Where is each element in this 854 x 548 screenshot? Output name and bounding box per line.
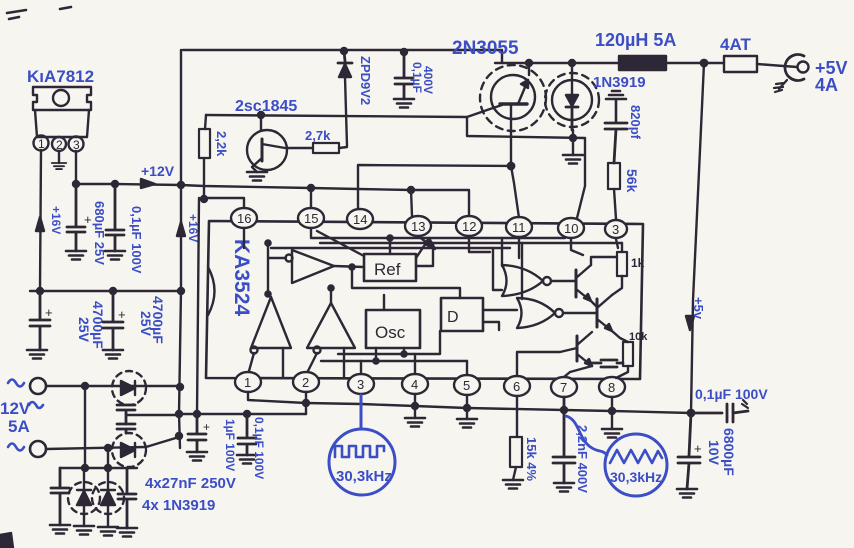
resistor 10k internal	[612, 331, 628, 342]
internal bus A	[311, 228, 565, 238]
ground under 15k	[503, 480, 523, 489]
ground under pin 4	[414, 394, 416, 418]
transistor Q1 internal	[575, 270, 578, 297]
svg-text:5A: 5A	[8, 417, 30, 436]
output jack	[785, 55, 804, 81]
ground under 680uF	[66, 251, 86, 260]
U1 pin 1	[34, 136, 49, 151]
svg-text:25V: 25V	[138, 311, 154, 337]
ground under 2,2nF	[554, 483, 574, 492]
svg-text:10: 10	[564, 221, 578, 236]
svg-text:6800µF: 6800µF	[721, 428, 737, 476]
svg-text:4: 4	[411, 377, 418, 392]
svg-text:1k: 1k	[631, 256, 645, 270]
ground under diode C	[74, 526, 94, 535]
svg-text:3: 3	[612, 222, 619, 237]
Ref block	[364, 254, 416, 281]
pin 3	[348, 374, 374, 394]
capacitor 27nF left	[51, 468, 69, 525]
wire Q1 emitter to Q2 collector	[591, 301, 597, 307]
ground under pin 8	[611, 397, 613, 429]
arrow down +5V	[686, 316, 694, 330]
svg-text:2,2k: 2,2k	[214, 131, 229, 157]
svg-text:1µF 100V: 1µF 100V	[223, 419, 237, 471]
svg-text:4x27nF 250V: 4x27nF 250V	[145, 475, 236, 492]
svg-text:+: +	[45, 305, 53, 320]
wire base drive to 2N3055 and pin10	[467, 117, 585, 218]
wire emitter to pin11	[511, 166, 519, 218]
svg-text:56k: 56k	[624, 169, 640, 193]
svg-text:2: 2	[56, 138, 63, 152]
svg-text:5: 5	[463, 378, 470, 393]
svg-text:KA3524: KA3524	[230, 239, 253, 316]
+12V rail wire	[76, 184, 469, 217]
wire pin10 stub into box	[571, 238, 583, 255]
input terminal T2	[30, 441, 46, 457]
resistor 2,2k	[204, 115, 206, 199]
pin 14	[347, 209, 373, 229]
resistor 15k at pin 6	[516, 396, 518, 437]
svg-text:3: 3	[73, 138, 80, 152]
wire left IC column	[197, 198, 199, 414]
base bias wire y115	[206, 115, 467, 117]
internal bus B	[320, 242, 622, 244]
svg-text:Osc: Osc	[375, 323, 406, 342]
wire diag pin15 to Ref	[317, 231, 364, 256]
ground under 4700uF first	[27, 350, 47, 359]
ground under pin 5	[466, 395, 468, 419]
ground under 1uF	[187, 452, 207, 461]
svg-text:14: 14	[353, 212, 367, 227]
svg-text:820pf: 820pf	[628, 105, 643, 140]
wire pin11 stub into box	[518, 237, 520, 258]
svg-text:4AT: 4AT	[720, 35, 751, 54]
svg-text:2: 2	[302, 375, 309, 390]
svg-text:11: 11	[512, 220, 526, 235]
pin 4	[402, 374, 428, 394]
ground stub under 1N3919	[572, 130, 574, 155]
svg-text:ZPD9V2: ZPD9V2	[358, 56, 373, 105]
pin 2	[293, 372, 319, 392]
capacitor 4700uF 25V (first)	[30, 291, 50, 350]
wire U1 pin3 down	[75, 151, 77, 184]
zener internal scribble	[592, 360, 623, 367]
svg-text:13: 13	[411, 219, 425, 234]
wire amp output to D	[352, 267, 460, 298]
wire Q3 emitter to pin7	[564, 366, 592, 377]
svg-text:400V: 400V	[421, 66, 435, 94]
capacitor 4700uF 25V (second)	[103, 291, 123, 350]
svg-text:2,7k: 2,7k	[305, 128, 331, 143]
diode 1N3919 flyback dashed circle	[545, 73, 599, 127]
capacitor 1uF 100V	[188, 414, 206, 452]
ground under 2SC1845 emitter	[247, 172, 267, 181]
transistor 2N3055	[491, 75, 535, 119]
NOR gate 1	[502, 265, 543, 296]
svg-text:6: 6	[513, 379, 520, 394]
pin 6	[504, 376, 530, 396]
pin 11	[506, 217, 532, 237]
pin 12	[456, 216, 482, 236]
wire terminal2	[46, 437, 179, 449]
svg-text:1: 1	[244, 375, 251, 390]
diode 1N3919 flyback	[552, 80, 592, 120]
diode C	[77, 491, 91, 505]
wire rail to pin15	[310, 188, 312, 208]
svg-text:25V: 25V	[76, 317, 92, 343]
wire rail to pin13	[411, 190, 412, 216]
svg-text:+16V: +16V	[49, 206, 63, 234]
svg-text:16: 16	[237, 211, 251, 226]
capacitor 680uF 25V	[67, 184, 85, 251]
capacitor 27nF right	[118, 468, 136, 528]
wire amp input column	[268, 243, 286, 297]
ground rail A below IC	[248, 392, 691, 413]
capacitor 6800uF 10V	[678, 413, 700, 489]
ground under U1 pin2	[52, 163, 66, 169]
top supply rail	[183, 50, 619, 63]
diode 1N3919 D dashed circle	[92, 482, 124, 514]
svg-text:0,1µF 100V: 0,1µF 100V	[129, 206, 144, 274]
arrow +16V on tall wire	[177, 222, 185, 236]
wire pin16 into box	[243, 228, 245, 248]
capacitor 0,1uF 400V top	[395, 52, 413, 99]
tall +16V vertical wire	[179, 50, 181, 448]
ground under 0,1uF bottom	[237, 455, 257, 464]
inductor 120uH 5A	[619, 56, 666, 70]
wire 2,2k node to pin16	[204, 198, 244, 208]
pin 7	[551, 377, 577, 397]
wire terminal1 to rail	[46, 385, 181, 387]
IC notch mark	[208, 267, 215, 315]
+5V sense vertical wire	[691, 63, 704, 413]
capacitor 0,1uF 100V bottom	[238, 414, 256, 455]
svg-text:30,3kHz: 30,3kHz	[610, 469, 662, 485]
ground under 6800uF	[677, 489, 697, 498]
svg-text:1N3919: 1N3919	[593, 74, 646, 91]
svg-text:+: +	[118, 307, 126, 322]
svg-text:4x 1N3919: 4x 1N3919	[142, 497, 215, 514]
pin 8	[599, 377, 625, 397]
wire terminal1 node down	[84, 386, 86, 468]
ac squiggle marks	[8, 380, 43, 451]
svg-text:3: 3	[357, 377, 364, 392]
svg-text:+: +	[203, 420, 210, 434]
wire pin3 pin4 pin5 stubs up	[361, 354, 467, 375]
IC U2 KA3524 box	[206, 221, 643, 379]
wire pin2 to ground	[58, 151, 60, 163]
diode 1N3919 C dashed circle	[68, 482, 100, 514]
svg-text:0,1µF 100V: 0,1µF 100V	[252, 417, 266, 479]
svg-text:10V: 10V	[706, 440, 722, 466]
wire pin 2 down	[305, 392, 307, 414]
capacitor 0,1uF 100V series right	[691, 404, 748, 422]
arrow +16V on pin1 wire	[36, 217, 44, 231]
capacitor 820pF with top ground	[606, 91, 626, 122]
capacitor 0,1uF 100V	[106, 184, 124, 251]
ground under left 27nF	[50, 525, 70, 534]
transistor Q-A dashed circle	[112, 371, 146, 405]
wire diag pin13 to Ref	[416, 240, 428, 258]
svg-text:+12V: +12V	[141, 163, 175, 179]
diode D	[101, 491, 115, 505]
pin 13 arrow scribble	[418, 236, 434, 248]
svg-text:2N3055: 2N3055	[452, 38, 519, 59]
ground under 0,1uF 400V	[394, 99, 414, 108]
svg-text:KıA7812: KıA7812	[27, 67, 94, 86]
comparator triangle 1	[251, 297, 291, 348]
node triangle wave scope blue	[566, 416, 607, 455]
wire Ref stubs	[390, 238, 433, 266]
svg-text:D: D	[447, 309, 459, 326]
svg-text:4A: 4A	[815, 75, 838, 95]
transistor 2N3055 dashed circle	[480, 65, 546, 131]
svg-text:10k: 10k	[629, 331, 648, 343]
U1 pin 2	[52, 137, 66, 151]
svg-text:7: 7	[560, 380, 567, 395]
svg-text:8: 8	[608, 380, 615, 395]
node square wave scope blue	[360, 395, 363, 429]
ground under 4700uF second	[103, 350, 123, 359]
capacitor 2,2nF at pin 7	[553, 397, 575, 483]
snubber top rail	[60, 467, 137, 469]
resistor 56k	[608, 163, 620, 189]
diode in Q-B	[121, 443, 135, 457]
svg-text:120µH 5A: 120µH 5A	[595, 30, 676, 50]
ground under 0,1uF	[105, 251, 125, 260]
capacitor 27nF stack upper	[117, 405, 135, 424]
+16V rail horizontal	[30, 290, 181, 292]
junction dots on +12V rail	[73, 181, 79, 187]
comparator triangle 2	[307, 303, 355, 348]
resistor 1k internal	[591, 239, 622, 265]
wire cap midpoint to +16V vertical	[126, 414, 179, 416]
svg-text:15: 15	[304, 211, 318, 226]
wire pin6 to Q3 base	[517, 348, 577, 376]
zener ZPD9V2	[338, 51, 352, 63]
rail B wire	[179, 413, 306, 415]
transistor Q2 internal	[596, 299, 599, 327]
wire pin12 stub into box	[469, 236, 490, 252]
wire terminal2 node down	[107, 449, 109, 468]
svg-text:2sc1845: 2sc1845	[235, 98, 297, 115]
resistor 2,7k horizontal	[313, 143, 339, 153]
wire U1 pin1 down	[40, 150, 41, 290]
svg-text:30,3kHz: 30,3kHz	[336, 468, 392, 485]
pin 10	[558, 218, 584, 238]
ground under right 27nF	[117, 528, 137, 537]
NOR gate 2	[517, 298, 555, 328]
svg-text:0,1µF 100V: 0,1µF 100V	[695, 386, 768, 402]
input terminal T1	[30, 378, 46, 394]
paper speck bottom-left	[0, 533, 13, 548]
svg-text:+: +	[84, 212, 92, 227]
internal bus C	[271, 247, 510, 249]
U1 pin 3	[69, 137, 84, 152]
transistor Q-B dashed circle	[112, 433, 146, 467]
svg-text:680µF 25V: 680µF 25V	[92, 201, 107, 265]
wire pin14 sense line	[358, 165, 511, 209]
D flip-flop block	[441, 298, 483, 331]
diode in Q-A	[121, 381, 135, 395]
svg-text:1: 1	[38, 137, 45, 151]
paper specks top-left	[7, 7, 71, 19]
pin 9	[605, 220, 627, 238]
svg-text:Ref: Ref	[374, 260, 401, 279]
arrow on +12V rail	[141, 179, 155, 188]
fuse 4AT	[704, 62, 724, 64]
svg-text:12: 12	[462, 219, 476, 234]
Osc block	[366, 310, 420, 348]
svg-text:15k 4%: 15k 4%	[524, 437, 539, 482]
op-amp error amplifier	[292, 250, 334, 283]
pin 1	[235, 372, 261, 392]
pin 15	[298, 208, 324, 228]
svg-text:+: +	[694, 441, 702, 456]
bus drops to gates	[493, 238, 522, 299]
transistor 2SC1845	[247, 130, 287, 170]
pin 13	[405, 216, 431, 236]
transistor Q3 internal	[576, 336, 579, 361]
svg-text:12V: 12V	[0, 399, 31, 418]
internal bottom bus wires	[321, 331, 467, 361]
ground under diode D	[98, 527, 118, 536]
pin 5	[454, 375, 480, 395]
pin 16	[231, 208, 257, 228]
svg-text:+5v: +5v	[691, 297, 706, 320]
capacitor 27nF stack lower	[117, 424, 135, 433]
regulator U1 KIA7812 package	[33, 87, 91, 110]
